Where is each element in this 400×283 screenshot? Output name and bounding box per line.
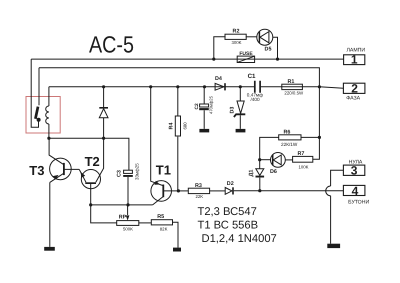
transistor T1 (151, 181, 172, 202)
wire R6 left down (260, 137, 279, 159)
capacitor C1 (255, 81, 260, 93)
svg-text:D6: D6 (270, 169, 277, 175)
svg-text:/400: /400 (251, 97, 261, 102)
node relay pivot (37, 118, 41, 122)
svg-text:2: 2 (351, 82, 358, 96)
ground C2 (199, 129, 209, 133)
diode D1 (259, 160, 261, 191)
svg-text:T3: T3 (29, 163, 44, 178)
svg-text:D3: D3 (230, 107, 236, 114)
svg-text:R3: R3 (195, 183, 202, 189)
relay K1 red outline (26, 97, 60, 134)
svg-text:НУЛА: НУЛА (349, 159, 363, 165)
zener D3 (239, 87, 241, 129)
svg-text:D2: D2 (227, 181, 234, 187)
relay contact blade (35, 107, 38, 119)
svg-text:4: 4 (352, 184, 359, 198)
ground D3 (236, 129, 246, 133)
resistor R6 (279, 135, 301, 140)
svg-text:Т1 ВС 556В: Т1 ВС 556В (198, 219, 259, 231)
node x319 rail6 (318, 136, 321, 139)
transistor T2 (81, 170, 100, 189)
wire box3 to ground with hop (331, 170, 344, 186)
relay fixed contact wire (38, 68, 40, 105)
resistor R1 (282, 84, 303, 89)
wire rail2 from relay contact to phase node (39, 68, 319, 87)
svg-text:БУТОНИ: БУТОНИ (348, 200, 369, 206)
ground R5 (173, 248, 181, 252)
node rail3 x177 (176, 85, 179, 88)
wire rail4 relay bottom (49, 138, 129, 170)
wire rail3 main horizontal (49, 87, 344, 88)
wire RP to R5 (139, 222, 152, 224)
resistor R3 (178, 190, 188, 192)
svg-text:100K: 100K (299, 165, 309, 170)
svg-text:82K: 82K (160, 226, 168, 231)
node rail5 x128 (126, 203, 129, 206)
led D6 (271, 153, 286, 168)
wire D6 to R7 (285, 159, 292, 161)
svg-text:ЛАМПИ: ЛАМПИ (346, 47, 365, 53)
wire R7 right up (313, 87, 320, 160)
svg-text:D1,2,4 1N4007: D1,2,4 1N4007 (202, 233, 277, 245)
ground bottom right (327, 244, 340, 248)
wire R2 branch left (214, 37, 226, 59)
led D5 (257, 29, 273, 45)
node rail4 x103 (102, 137, 105, 140)
svg-text:T1: T1 (156, 162, 171, 177)
svg-text:22K: 22K (196, 194, 204, 199)
connector box 1 (344, 55, 365, 65)
diode flyback across relay coil (103, 87, 105, 107)
svg-text:1: 1 (351, 52, 358, 66)
ground T3 (44, 247, 55, 251)
svg-text:Т2,3 ВС547: Т2,3 ВС547 (198, 206, 257, 218)
diode D2 (210, 190, 226, 192)
capacitor C2 (203, 87, 205, 129)
wire R2 to D5 (246, 36, 257, 38)
wire T2 collector (96, 118, 104, 183)
svg-text:R4: R4 (168, 123, 174, 130)
node phase (318, 85, 321, 88)
connector box 4 (343, 185, 365, 195)
wire D5 to rail1 (273, 37, 278, 59)
svg-text:R2: R2 (233, 28, 240, 34)
node T1 base (177, 189, 180, 192)
potentiometer RP (127, 205, 129, 215)
wire R6 right (301, 136, 319, 138)
relay contact armature wire (31, 59, 38, 127)
svg-text:D5: D5 (265, 47, 272, 53)
resistor R5 (151, 220, 172, 225)
svg-text:T2: T2 (85, 154, 100, 169)
svg-text:300K: 300K (231, 40, 241, 45)
svg-text:500K: 500K (123, 227, 133, 232)
svg-text:ФАЗА: ФАЗА (346, 96, 360, 102)
svg-text:C3: C3 (117, 170, 123, 177)
node rail3 x240 (239, 85, 242, 88)
resistor R7 (293, 156, 313, 162)
diode D4 (215, 83, 224, 90)
svg-text:C2: C2 (194, 103, 200, 109)
wire R5 to ground (173, 222, 179, 247)
svg-text:R7: R7 (298, 151, 305, 157)
connector box 3 (343, 165, 364, 175)
node rail1 x213 (212, 58, 215, 61)
wire rail5 (91, 204, 153, 206)
wire node to D6 (260, 159, 271, 161)
wire rail1 top (31, 58, 343, 60)
svg-text:D4: D4 (215, 76, 222, 82)
node T2 base rail5 (89, 203, 92, 206)
svg-text:R6: R6 (284, 129, 291, 135)
wire T3 emitter to ground (49, 182, 51, 247)
svg-text:Д1: Д1 (249, 170, 255, 177)
resistor R2 (225, 34, 246, 39)
wire T2 base down (91, 184, 117, 223)
svg-text:33мф25: 33мф25 (135, 163, 140, 180)
connector box 2 (343, 83, 365, 93)
svg-text:FUSE: FUSE (239, 51, 253, 57)
svg-text:R5: R5 (157, 214, 164, 220)
fuse F1 (237, 56, 254, 62)
svg-text:470мф25: 470мф25 (208, 95, 213, 114)
node rail3 x150 (149, 85, 152, 88)
svg-text:680: 680 (183, 122, 188, 130)
svg-text:3: 3 (351, 164, 358, 178)
svg-text:AC-5: AC-5 (89, 31, 134, 57)
svg-text:C1: C1 (248, 73, 256, 80)
node rail3 x204 (203, 85, 206, 88)
svg-text:RP: RP (119, 214, 127, 220)
capacitor C3 (124, 170, 133, 173)
wire D2 to box4 (234, 190, 344, 192)
svg-text:220/0.5W: 220/0.5W (284, 91, 304, 96)
node D1 bottom (258, 189, 261, 192)
svg-text:R1: R1 (288, 79, 295, 85)
resistor R4 (177, 87, 179, 191)
node rail1 x277 (276, 58, 279, 61)
svg-text:22К/1W: 22К/1W (281, 142, 298, 147)
relay coil L1 (48, 87, 50, 138)
node rail4 x49 (47, 137, 50, 140)
transistor T3 (50, 158, 72, 180)
node rail3 x103 (102, 85, 105, 88)
node D1 top (258, 158, 261, 161)
